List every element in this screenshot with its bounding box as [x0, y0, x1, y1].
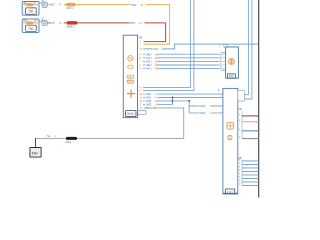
svg-text:D/D: D/D	[128, 81, 132, 84]
stub b1	[239, 159, 259, 161]
wire W7 branch 1402-4C	[189, 111, 225, 115]
stub wire gray	[239, 137, 259, 139]
module U3 (tall right box)	[217, 88, 238, 194]
fuse F1 box	[22, 2, 39, 16]
connector pin of F2	[39, 18, 47, 25]
wire W3 blue LPG-1E	[140, 44, 259, 51]
wire W4b	[140, 56, 223, 60]
svg-text:CB: CB	[128, 76, 132, 79]
svg-text:Ne: Ne	[47, 134, 51, 138]
wire W5b U1 to U3	[140, 96, 226, 100]
svg-text:- J4: - J4	[57, 3, 62, 7]
wire W4c	[140, 59, 223, 63]
wire W1 orange from F1 to U1 pin	[48, 5, 170, 45]
svg-text:4B: 4B	[238, 107, 241, 111]
stub b7	[239, 180, 259, 182]
wire W1 label 4B2-J4 (right)	[131, 3, 146, 7]
wire W4d	[140, 63, 223, 67]
fuse F2 label 750	[26, 25, 37, 31]
wire W4a	[140, 52, 223, 56]
svg-text:-2B: -2B	[154, 69, 158, 71]
svg-text:- B8: - B8	[209, 104, 214, 108]
wire V1	[140, 0, 191, 90]
ground wire Ne from U1 tab to MH	[36, 106, 184, 148]
wire W2 red from F2 to U1 pin	[48, 23, 166, 42]
stub b8	[239, 184, 259, 186]
svg-text:- 1C: - 1C	[138, 21, 143, 25]
stub b3	[239, 166, 259, 168]
svg-text:14EJ: 14EJ	[146, 63, 153, 67]
wire W1 harness block HPV-1	[66, 3, 75, 10]
svg-text:14BJ: 14BJ	[146, 52, 153, 56]
svg-text:-1E: -1E	[161, 47, 165, 51]
svg-text:4B: 4B	[139, 36, 142, 40]
wire W2 label B7D-1C (left)	[49, 21, 64, 25]
stub b2	[239, 163, 259, 165]
svg-text:B7D: B7D	[130, 21, 135, 25]
svg-text:1405: 1405	[146, 103, 152, 107]
wire W5d U1 to junction	[140, 102, 173, 106]
svg-text:4B2: 4B2	[50, 3, 55, 7]
ground MH box	[30, 148, 41, 158]
svg-text:14DJ: 14DJ	[146, 60, 153, 64]
wire W6 branch 140A-B8	[189, 104, 225, 108]
svg-text:B7D: B7D	[49, 21, 54, 25]
wire W5a U1 to U3	[140, 92, 226, 96]
stub wire blue	[239, 129, 259, 131]
U1 icon D/D	[127, 80, 133, 84]
svg-text:14FJ: 14FJ	[146, 67, 152, 71]
U3 right connector tab	[238, 91, 245, 102]
U3 right side stub group 1	[238, 107, 242, 138]
U1 bottom-right connector tab	[138, 110, 146, 114]
junction vertical at 172.5 with dots	[172, 97, 174, 105]
U2 top tab	[219, 45, 228, 48]
svg-text:4B2: 4B2	[132, 3, 137, 7]
stub b4	[239, 170, 259, 172]
wire W1 label 4B2-J4 (left)	[49, 3, 64, 7]
U1 lamp icon	[128, 56, 133, 61]
U2 pin stubs	[222, 54, 226, 68]
stub wire tan	[239, 120, 259, 122]
svg-text:- J4: - J4	[139, 3, 144, 7]
stub b6	[239, 177, 259, 179]
wire V4	[245, 0, 252, 99]
svg-text:- C: - C	[53, 134, 57, 138]
U2 left connector tab	[221, 52, 226, 70]
U1 bottom label 0040	[126, 111, 136, 117]
stub b5	[239, 173, 259, 175]
svg-text:140A: 140A	[199, 104, 205, 108]
svg-text:750: 750	[28, 27, 34, 31]
dark module edge line	[258, 0, 260, 198]
fuse F1 symbol	[23, 4, 38, 6]
wire W2 harness block 8MR-1	[67, 21, 77, 28]
svg-text:1131: 1131	[227, 190, 234, 194]
U2 motor icon	[228, 59, 234, 65]
branch vertical at 190.9	[188, 100, 190, 113]
svg-text:MH: MH	[32, 152, 38, 156]
U1 icon rect	[128, 65, 133, 68]
connector pin of F1	[39, 0, 47, 7]
U3 window icon	[227, 123, 233, 129]
svg-text:150: 150	[229, 74, 234, 78]
svg-text:1402: 1402	[199, 111, 205, 115]
svg-text:-A: -A	[217, 88, 220, 92]
U3 lamp icon	[228, 135, 232, 139]
fuse F1 label 750	[26, 8, 37, 14]
stub wire maroon	[239, 114, 259, 116]
component U2 (sensor, top right)	[226, 47, 239, 78]
ground wire black block	[66, 137, 78, 144]
fuse F2 symbol	[23, 22, 38, 24]
svg-text:750: 750	[28, 10, 34, 14]
U3 bottom label 1131	[226, 189, 235, 194]
U3 right side stub group 2	[238, 156, 242, 185]
svg-text:LPG: LPG	[153, 47, 158, 51]
U1 icon CB	[127, 75, 133, 79]
U2 label 150	[227, 74, 235, 78]
U1 pin 44.3 (orange wire)	[140, 44, 142, 46]
wire V2	[140, 0, 194, 93]
wire V3	[245, 0, 249, 95]
wire W2 label B7D-1C (right)	[130, 21, 145, 25]
ground wire label Ne-C (left)	[47, 134, 57, 138]
wire W4e	[140, 67, 223, 71]
U1 plus symbol	[127, 90, 135, 98]
svg-text:- 4C: - 4C	[209, 111, 214, 115]
svg-text:14CJ: 14CJ	[146, 56, 153, 60]
svg-text:HPV-1: HPV-1	[66, 6, 74, 10]
wire W5c U1 to U3	[140, 99, 190, 103]
control unit U1 (instrument cluster)	[123, 35, 142, 117]
svg-text:8MR-1: 8MR-1	[67, 25, 75, 29]
svg-text:0040: 0040	[127, 112, 134, 116]
svg-text:- 1C: - 1C	[57, 21, 62, 25]
U1 pin 41.6 (red wire)	[140, 42, 142, 44]
svg-text:(MH): (MH)	[66, 140, 72, 144]
fuse F2 box	[22, 19, 39, 33]
